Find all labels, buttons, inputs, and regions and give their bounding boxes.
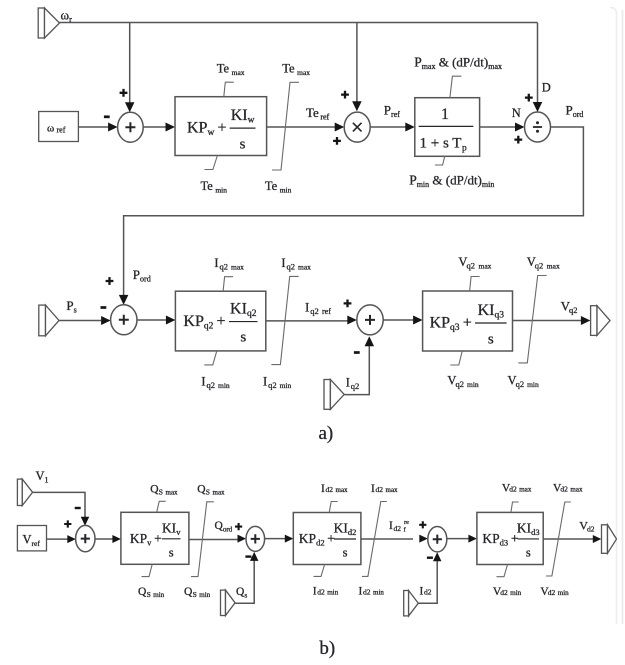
svg-text:min: min bbox=[199, 591, 210, 599]
label Vd2 min lower-1 bbox=[493, 586, 502, 598]
svg-text:I: I bbox=[201, 375, 205, 389]
limiter slash Qs bbox=[191, 502, 214, 577]
svg-text:Temin: Temin bbox=[265, 179, 292, 195]
limit hook Te min on block bbox=[204, 156, 217, 170]
input pennant Ps bbox=[39, 305, 59, 336]
svg-text:d2: d2 bbox=[376, 485, 384, 494]
svg-text:Teref: Teref bbox=[306, 105, 330, 122]
wire drop to sum S1 bbox=[129, 23, 131, 104]
arrowhead into KPv block bbox=[112, 535, 121, 543]
wire S1 to PI block bbox=[143, 126, 166, 128]
limit hook Vd2 min on block bbox=[497, 565, 508, 577]
svg-text:min: min bbox=[153, 591, 164, 599]
label Iq2 source b bbox=[351, 381, 360, 391]
svg-text:s: s bbox=[526, 545, 531, 559]
svg-text:f: f bbox=[404, 527, 407, 534]
label Vd2 min lower-1b bbox=[500, 588, 508, 597]
label Qs max upper-2b bbox=[206, 488, 210, 497]
arrowhead into Vq2 pennant bbox=[581, 316, 591, 325]
label Iq2 min lower-2c bbox=[280, 381, 292, 390]
limiter slash Iq2 bbox=[271, 276, 298, 364]
label Id2 ref b bbox=[394, 524, 402, 533]
label Qs min lower-1b bbox=[147, 590, 151, 599]
limit hook Iq2 min on block bbox=[204, 351, 217, 365]
svg-text:max: max bbox=[479, 262, 492, 271]
output pennant Vq2 bbox=[591, 306, 610, 336]
svg-text:q2: q2 bbox=[310, 306, 319, 316]
input pennant omega_r bbox=[38, 8, 59, 38]
label Te min lower-1 bbox=[201, 179, 228, 195]
label Id2 ref bbox=[389, 520, 393, 532]
arrowhead into lag block bbox=[405, 123, 415, 132]
svg-text:ω: ω bbox=[47, 123, 54, 135]
label Iq2 min lower-2b bbox=[268, 380, 277, 390]
svg-text:I: I bbox=[321, 483, 325, 495]
label Pref bbox=[384, 102, 400, 119]
svg-text:max: max bbox=[570, 486, 583, 494]
svg-text:ref: ref bbox=[32, 539, 41, 548]
svg-text:s: s bbox=[240, 137, 246, 153]
label Iq2 ref c bbox=[322, 307, 331, 316]
svg-text:min: min bbox=[527, 380, 539, 389]
svg-text:I: I bbox=[359, 586, 363, 598]
input pennant Qs bbox=[221, 590, 236, 615]
label Vq2 min lower-1b bbox=[456, 379, 465, 389]
svg-text:d2: d2 bbox=[509, 485, 517, 494]
minus sign S4 top input bbox=[75, 507, 81, 509]
svg-text:min: min bbox=[467, 380, 479, 389]
label V1 bbox=[36, 469, 49, 485]
svg-text:q2: q2 bbox=[516, 379, 525, 389]
wire Vd2 output bbox=[543, 538, 593, 540]
minus sign S6 bottom input bbox=[427, 557, 433, 559]
svg-text:S: S bbox=[147, 590, 151, 599]
wire Pord feedback bbox=[124, 127, 584, 296]
arrowhead Qs into S5 bottom bbox=[250, 552, 259, 561]
arrowhead V1 into S4 top bbox=[81, 517, 90, 526]
plus sign S2 top input bbox=[106, 277, 114, 285]
label Qs max upper-1b bbox=[159, 488, 163, 497]
limiter slash Vd2 bbox=[546, 502, 571, 576]
wire Te signal to multiplier bbox=[267, 126, 335, 128]
label Vq2 max upper-1 bbox=[458, 255, 467, 269]
svg-text:max: max bbox=[386, 486, 399, 494]
limit hook Iq2 max on block bbox=[223, 277, 233, 292]
arrowhead into S6 left bbox=[419, 535, 428, 543]
block omega_ref source bbox=[39, 112, 79, 142]
svg-text:max: max bbox=[519, 486, 532, 494]
label Qord bbox=[215, 520, 233, 534]
arrowhead into KPd3 block bbox=[468, 535, 477, 543]
svg-text:Qord: Qord bbox=[215, 520, 233, 534]
plus sign S6 left input bbox=[419, 521, 426, 528]
svg-text:q2: q2 bbox=[456, 379, 465, 389]
limiter slash Te bbox=[272, 82, 299, 170]
svg-text:KPw +: KPw + bbox=[187, 120, 227, 139]
svg-text:max: max bbox=[298, 263, 311, 272]
svg-text:Pord: Pord bbox=[566, 103, 584, 120]
summing junction S3 bbox=[357, 305, 383, 335]
plus sign M1 left input bbox=[333, 137, 341, 145]
plus sign D1 left input bbox=[514, 136, 522, 144]
label Iq2 source bbox=[346, 376, 350, 390]
label Id2 min lower-2c bbox=[373, 589, 384, 597]
svg-text:Pmax & (dP/dt)max: Pmax & (dP/dt)max bbox=[414, 55, 502, 72]
svg-text:Temax: Temax bbox=[217, 62, 245, 78]
svg-text:I: I bbox=[389, 520, 393, 532]
label D bbox=[542, 81, 551, 95]
PI block KPw + KIw/s bbox=[175, 97, 267, 156]
label Iq2 min lower-1b bbox=[207, 380, 216, 390]
divider junction D1 bbox=[525, 112, 551, 142]
label Vd2 min lower-2c bbox=[558, 589, 569, 597]
arrowhead Pord into S2 top bbox=[119, 295, 129, 305]
wire Ps to S2 bbox=[59, 320, 101, 322]
arrowhead into divider top bbox=[533, 102, 543, 112]
wire S3 to KPq3 block bbox=[383, 319, 413, 321]
arrowhead Iq2 into S3 bottom bbox=[365, 336, 375, 346]
svg-text:N: N bbox=[512, 106, 521, 120]
svg-text:max: max bbox=[213, 489, 226, 497]
arrowhead into KPq2 block bbox=[166, 316, 176, 325]
svg-text:I: I bbox=[371, 483, 375, 495]
limit hook Id2 max on block bbox=[329, 502, 338, 513]
arrowhead into S5 left bbox=[238, 535, 247, 543]
svg-text:Qs: Qs bbox=[236, 586, 247, 600]
svg-text:Pref: Pref bbox=[384, 102, 400, 119]
limit hook Pmin on lag block bbox=[435, 156, 445, 165]
label Qs max upper-2 bbox=[197, 484, 206, 496]
label Iq2 max upper-1c bbox=[231, 263, 244, 272]
label Qs max upper-1c bbox=[166, 489, 179, 497]
label Ps bbox=[66, 298, 76, 315]
arrowhead into S2 left bbox=[101, 316, 111, 325]
wire drop to divider D input bbox=[537, 23, 539, 104]
label Id2 max upper-1b bbox=[326, 485, 334, 494]
minus sign S1 left input bbox=[104, 115, 110, 118]
wire S6 to KPd3 block bbox=[447, 538, 469, 540]
svg-text:min: min bbox=[373, 589, 384, 597]
wire S5 to KPd2 block bbox=[265, 538, 286, 540]
label Vd2 max upper-1 bbox=[502, 483, 511, 495]
limit hook Vq2 min on block bbox=[450, 351, 462, 365]
label Vd2 output bbox=[579, 519, 588, 533]
PI block KPd2 + KId2/s bbox=[293, 513, 361, 565]
svg-text:D: D bbox=[542, 81, 551, 95]
wire Iq2 ref signal bbox=[266, 320, 348, 322]
summing junction S2 bbox=[111, 305, 137, 335]
wire V1 to S4 bbox=[33, 492, 85, 517]
svg-text:I: I bbox=[346, 376, 350, 390]
wire drop to multiplier bbox=[356, 23, 358, 103]
wire Pref filtered to divider bbox=[480, 126, 516, 128]
label Te ref bbox=[306, 105, 330, 122]
svg-text:max: max bbox=[336, 486, 349, 494]
svg-text:s: s bbox=[343, 546, 348, 560]
svg-text:S: S bbox=[206, 488, 210, 497]
wire Qord signal bbox=[189, 539, 238, 541]
limiter slash Id2 bbox=[362, 502, 387, 577]
summing junction S6 bbox=[428, 527, 447, 552]
wire S2 to KPq2 block bbox=[137, 319, 167, 321]
svg-text:q2: q2 bbox=[220, 262, 229, 272]
label Vq2 min lower-1c bbox=[467, 380, 479, 389]
svg-text:q2: q2 bbox=[535, 261, 544, 271]
summing junction S4 bbox=[76, 525, 95, 551]
minus sign S3 bottom input bbox=[354, 351, 360, 354]
label Id2 max upper-1 bbox=[321, 483, 325, 495]
label Qs min lower-1 bbox=[138, 586, 147, 598]
label Vd2 max upper-2 bbox=[553, 483, 562, 495]
label Id2 max upper-2c bbox=[386, 486, 399, 494]
PI block KPv + KIv/s bbox=[121, 512, 189, 564]
svg-text:V1: V1 bbox=[36, 469, 49, 485]
label Vq2 max upper-1b bbox=[467, 261, 476, 271]
svg-text:S: S bbox=[159, 488, 163, 497]
label Vq2 max upper-1c bbox=[479, 262, 492, 271]
wire omega_r bus bbox=[60, 22, 538, 24]
svg-text:d2: d2 bbox=[317, 588, 325, 597]
label Vq2 min lower-2b bbox=[516, 379, 525, 389]
minus sign S5 bottom input bbox=[245, 555, 251, 557]
label Id2 max upper-2b bbox=[376, 485, 384, 494]
svg-text:re: re bbox=[404, 519, 409, 526]
limit hook Vq2 max on block bbox=[470, 277, 480, 292]
label Qs max upper-1 bbox=[150, 484, 159, 496]
arrowhead into KPd2 block bbox=[285, 535, 294, 543]
svg-text:s: s bbox=[169, 545, 174, 559]
label Id2 min lower-2 bbox=[359, 586, 363, 598]
limit hook Qs min on block bbox=[142, 564, 153, 576]
label Iq2 ref b bbox=[310, 306, 319, 316]
wire Vref to S4 bbox=[47, 538, 69, 540]
label Id2 source b bbox=[424, 588, 432, 597]
svg-text:ωr: ωr bbox=[61, 8, 73, 25]
PI block KPq2 + KIq2/s bbox=[175, 291, 265, 351]
label Id2 min lower-1c bbox=[327, 589, 338, 597]
wire Id2 to S6 bbox=[418, 561, 437, 603]
limiter slash Vq2 bbox=[518, 276, 546, 363]
arrowhead into Vd2 pennant bbox=[593, 535, 602, 543]
svg-text:min: min bbox=[510, 589, 521, 597]
svg-text:Pmin & (dP/dt)min: Pmin & (dP/dt)min bbox=[409, 173, 494, 190]
arrowhead into multiplier bbox=[335, 123, 345, 132]
label Iq2 min lower-1c bbox=[218, 381, 230, 390]
svg-text:I: I bbox=[305, 300, 309, 315]
svg-text:d2: d2 bbox=[548, 588, 556, 597]
label Vq2 min lower-1 bbox=[447, 374, 456, 388]
label Pord row2 bbox=[133, 267, 151, 284]
svg-text:b): b) bbox=[319, 638, 335, 659]
svg-text:d2: d2 bbox=[500, 588, 508, 597]
svg-text:p: p bbox=[462, 144, 467, 154]
arrowhead into S1 top bbox=[125, 102, 135, 112]
svg-text:d2: d2 bbox=[363, 588, 371, 597]
svg-text:min: min bbox=[218, 381, 230, 390]
svg-text:I: I bbox=[281, 256, 285, 270]
svg-text:I: I bbox=[313, 586, 317, 598]
label Qs min lower-2b bbox=[193, 590, 197, 599]
svg-text:Temin: Temin bbox=[201, 179, 228, 195]
PI block KPq3 + KIq3/s bbox=[423, 291, 513, 351]
label Vq2 max upper-2 bbox=[527, 255, 536, 269]
svg-text:KPv +: KPv + bbox=[130, 531, 162, 548]
wire Qs to S5 bbox=[235, 561, 254, 604]
plus sign S4 left input bbox=[64, 520, 71, 527]
wire Vq2 output bbox=[513, 320, 582, 322]
label Id2 source bbox=[420, 586, 424, 598]
output pennant Vd2 bbox=[602, 525, 617, 554]
svg-text:I: I bbox=[420, 586, 424, 598]
minus sign S2 left input bbox=[101, 306, 107, 309]
summing junction S1 bbox=[118, 112, 144, 142]
limit hook Vd2 max on block bbox=[511, 502, 519, 512]
label Te max upper-1 bbox=[217, 62, 245, 78]
label Iq2 max upper-2c bbox=[298, 263, 311, 272]
svg-text:d2: d2 bbox=[394, 524, 402, 533]
label Id2 min lower-1 bbox=[313, 586, 317, 598]
label omega_r bbox=[61, 8, 73, 25]
label Qs max upper-2c bbox=[213, 489, 226, 497]
wire omega_ref to S1 bbox=[78, 126, 108, 128]
arrowhead into S3 left bbox=[347, 316, 357, 325]
label Vd2 max upper-1c bbox=[519, 486, 532, 494]
label Iq2 min lower-1 bbox=[201, 375, 205, 389]
block Vref source bbox=[17, 526, 46, 551]
svg-text:max: max bbox=[231, 263, 244, 272]
svg-text:S: S bbox=[193, 590, 197, 599]
label Vd2 min lower-1c bbox=[510, 589, 521, 597]
svg-text:I: I bbox=[214, 256, 218, 270]
label Qs source bbox=[236, 586, 247, 600]
plus sign D1 top input bbox=[525, 94, 533, 102]
svg-text:q2: q2 bbox=[207, 380, 216, 390]
svg-text:s: s bbox=[488, 332, 494, 348]
svg-text:ref: ref bbox=[57, 126, 66, 135]
svg-text:d2: d2 bbox=[424, 588, 432, 597]
label Vd2 max upper-1b bbox=[509, 485, 517, 494]
svg-text:V: V bbox=[23, 533, 32, 547]
limit hook Qs max on block bbox=[157, 501, 166, 512]
label Vd2 max upper-2b bbox=[560, 485, 568, 494]
input pennant Id2 bbox=[404, 591, 419, 616]
label Pmin and dP/dt min bbox=[409, 173, 494, 190]
svg-text:d2: d2 bbox=[560, 485, 568, 494]
lag block 1/(1+s Tp) bbox=[415, 98, 480, 157]
arrowhead Id2 into S6 bottom bbox=[433, 552, 442, 561]
svg-text:q2: q2 bbox=[351, 381, 360, 391]
label Id2 min lower-2b bbox=[363, 588, 371, 597]
svg-text:Ps: Ps bbox=[66, 298, 76, 315]
wire Pref bbox=[370, 126, 405, 128]
label Id2 min lower-1b bbox=[317, 588, 325, 597]
label Te min lower-2 bbox=[265, 179, 292, 195]
label Qs min lower-1c bbox=[153, 591, 164, 599]
arrowhead into S1 left bbox=[108, 123, 118, 132]
caption a) bbox=[319, 423, 334, 444]
plus sign M1 top input bbox=[341, 91, 349, 99]
plus sign S5 left input bbox=[235, 523, 242, 530]
svg-text:Temax: Temax bbox=[282, 62, 310, 78]
svg-text:s: s bbox=[240, 330, 246, 346]
wire S4 to KPv block bbox=[95, 538, 113, 540]
label Vq2 max upper-2c bbox=[547, 262, 560, 271]
label Vq2 output b bbox=[569, 305, 578, 315]
arrowhead into KPq3 block bbox=[413, 316, 423, 325]
label Te max upper-2 bbox=[282, 62, 310, 78]
label Id2 max upper-1c bbox=[336, 486, 349, 494]
limit hook Id2 min on block bbox=[314, 565, 325, 577]
limit hook Pmax on lag block bbox=[450, 76, 462, 98]
label Iq2 min lower-2 bbox=[263, 375, 267, 389]
caption b) bbox=[319, 638, 335, 659]
arrowhead into divider bbox=[515, 123, 525, 132]
PI block KPd3 + KId3/s bbox=[477, 512, 543, 564]
label Id2 ref stacked bbox=[404, 519, 410, 534]
label Qs min lower-2 bbox=[184, 586, 193, 598]
label Vq2 max upper-2b bbox=[535, 261, 544, 271]
input pennant Iq2 bbox=[324, 380, 344, 410]
label Id2 max upper-2 bbox=[371, 483, 375, 495]
svg-text:Pord: Pord bbox=[133, 267, 151, 284]
svg-text:q2: q2 bbox=[569, 305, 578, 315]
label Vd2 max upper-2c bbox=[570, 486, 583, 494]
plus sign S1 top input bbox=[120, 89, 128, 97]
svg-text:a): a) bbox=[319, 423, 334, 444]
svg-text:max: max bbox=[166, 489, 179, 497]
label Vd2 min lower-2 bbox=[540, 586, 549, 598]
decor bbox=[610, 8, 623, 625]
svg-text:1: 1 bbox=[441, 106, 449, 123]
label Vq2 min lower-2 bbox=[508, 374, 517, 388]
arrowhead into multiplier top bbox=[352, 101, 362, 111]
wire Iq2 to S3 bbox=[344, 346, 369, 395]
svg-text:max: max bbox=[547, 262, 560, 271]
svg-text:min: min bbox=[280, 381, 292, 390]
svg-text:q2: q2 bbox=[287, 262, 296, 272]
arrowhead into S4 left bbox=[67, 535, 76, 543]
svg-text:min: min bbox=[558, 589, 569, 597]
input pennant V1 bbox=[17, 479, 32, 505]
label Iq2 max upper-1b bbox=[220, 262, 229, 272]
arrowhead into KPw block bbox=[166, 123, 176, 132]
multiplier junction M1 bbox=[344, 112, 370, 142]
label Iq2 max upper-2b bbox=[287, 262, 296, 272]
svg-text:I: I bbox=[263, 375, 267, 389]
label Vq2 output bbox=[561, 299, 571, 314]
label Iq2 max upper-2 bbox=[281, 256, 285, 270]
svg-text:q2: q2 bbox=[268, 380, 277, 390]
svg-text:q2: q2 bbox=[467, 261, 476, 271]
svg-text:d2: d2 bbox=[587, 525, 595, 534]
label Pmax and dP/dt max bbox=[414, 55, 502, 72]
plus sign S3 left input bbox=[344, 300, 352, 308]
label Vd2 output b bbox=[587, 525, 595, 534]
limit hook Te max on block bbox=[224, 82, 234, 97]
label Vd2 min lower-2b bbox=[548, 588, 556, 597]
label Pord row1 bbox=[566, 103, 584, 120]
svg-text:d2: d2 bbox=[326, 485, 334, 494]
svg-text:ref: ref bbox=[322, 307, 331, 316]
label Iq2 ref bbox=[305, 300, 309, 315]
wire Id2 ref signal bbox=[361, 538, 413, 540]
svg-text:1 + s T: 1 + s T bbox=[420, 136, 462, 152]
label N bbox=[512, 106, 521, 120]
label Iq2 max upper-1 bbox=[214, 256, 218, 270]
label Qs min lower-2c bbox=[199, 591, 210, 599]
svg-text:min: min bbox=[327, 589, 338, 597]
label Vq2 min lower-2c bbox=[527, 380, 539, 389]
